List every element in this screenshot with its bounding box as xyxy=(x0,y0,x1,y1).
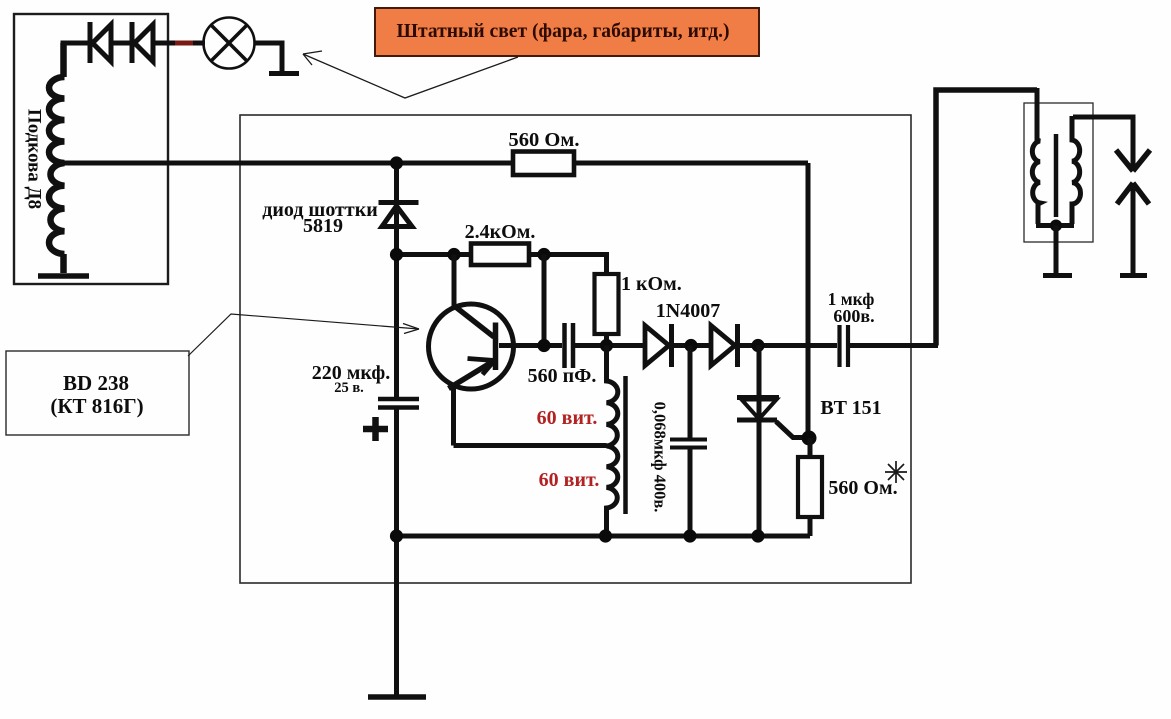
node dot rail left xyxy=(390,529,403,542)
diode D1 (left-pointing) xyxy=(90,22,111,63)
plus sign of C1 xyxy=(363,417,388,441)
ground main (bottom) xyxy=(368,694,426,700)
resistor R1 560 Ом xyxy=(513,152,574,176)
wire D1-D2 xyxy=(111,41,130,46)
node dot R2 right xyxy=(537,248,550,261)
wire output riser xyxy=(936,90,1037,346)
wire D2 to lamp xyxy=(153,41,175,46)
callout arrow to transistor xyxy=(188,314,419,356)
diode D4 1N4007 xyxy=(711,324,738,367)
ground of spark gap xyxy=(1120,273,1147,278)
node dot rail transformer xyxy=(599,529,612,542)
resistor R3 1 кОм xyxy=(595,274,619,334)
resistor R4 560 Ом xyxy=(808,438,813,457)
main circuit box xyxy=(240,115,911,583)
svg-text:Подкова Д8: Подкова Д8 xyxy=(24,109,45,209)
wire left vertical lower to ground xyxy=(394,410,399,696)
lamp (штатный свет) xyxy=(204,18,255,69)
wire right vertical x=808 xyxy=(806,163,811,438)
svg-text:560 Ом.: 560 Ом. xyxy=(828,477,897,499)
svg-text:2.4кОм.: 2.4кОм. xyxy=(465,221,536,243)
callout box Штатный свет xyxy=(375,8,759,56)
resistor R2 2.4кОм xyxy=(471,244,529,266)
transistor BD238 xyxy=(429,255,514,446)
node dot between diodes xyxy=(684,339,697,352)
ignition coil secondary winding xyxy=(1072,116,1080,224)
ground of lamp xyxy=(269,71,299,76)
wire D4 to C4 xyxy=(738,343,838,348)
svg-text:60 вит.: 60 вит. xyxy=(537,407,598,429)
node dot rail thyristor xyxy=(751,529,764,542)
ignition coil box xyxy=(1024,103,1093,242)
schottky diode 5819 xyxy=(379,203,419,227)
wire R3 bottom xyxy=(604,334,609,346)
ground of generator coil xyxy=(38,273,89,279)
svg-text:25 в.: 25 в. xyxy=(334,380,364,396)
wire base row left xyxy=(499,343,562,348)
node dot left xyxy=(390,248,403,261)
thyristor BT151 xyxy=(737,346,808,537)
transformer T1 primary winding lower 60 вит xyxy=(607,446,618,536)
wire D3-D4 xyxy=(672,343,713,348)
svg-text:560 Ом.: 560 Ом. xyxy=(509,129,580,151)
wire red to lamp xyxy=(193,41,205,46)
diode D2 (left-pointing) xyxy=(132,22,153,63)
capacitor C3 0,068мкф 400в xyxy=(670,346,707,537)
generator box (left enclosure) xyxy=(14,14,168,284)
capacitor C1 220мкф plates xyxy=(378,399,419,408)
svg-text:0,068мкф 400в.: 0,068мкф 400в. xyxy=(651,402,670,513)
node dot gate xyxy=(802,431,817,446)
asterisk footnote xyxy=(885,461,907,483)
svg-text:BT 151: BT 151 xyxy=(820,397,881,419)
ignition coil bottom wire xyxy=(1036,223,1074,228)
wire 2.4k row xyxy=(397,252,472,257)
wire emitter return xyxy=(454,443,607,448)
ground of ignition coil xyxy=(1043,273,1072,278)
svg-text:BD 238: BD 238 xyxy=(63,371,129,395)
wire base feedback vertical xyxy=(542,255,547,346)
spark gap upper arrow xyxy=(1116,150,1150,171)
spark gap lower arrow xyxy=(1117,183,1149,204)
svg-text:1N4007: 1N4007 xyxy=(656,300,720,322)
svg-text:(КТ 816Г): (КТ 816Г) xyxy=(50,394,143,418)
transformer T1 core xyxy=(623,376,628,514)
node dot coil common xyxy=(1050,220,1062,232)
wire bottom rail xyxy=(397,534,811,539)
svg-text:1 кОм.: 1 кОм. xyxy=(621,273,682,295)
wire left vertical upper xyxy=(394,163,399,397)
svg-text:5819: 5819 xyxy=(303,215,343,237)
svg-text:60 вит.: 60 вит. xyxy=(539,469,600,491)
node dot collector xyxy=(447,248,460,261)
transformer T1 primary winding upper 60 вит xyxy=(607,346,618,447)
wire coil to ground xyxy=(1054,226,1059,274)
node dot base xyxy=(537,339,550,352)
wire base row mid xyxy=(575,343,646,348)
node dot thyristor branch xyxy=(751,339,764,352)
svg-text:Штатный свет (фара, габариты,: Штатный свет (фара, габариты, итд.) xyxy=(396,21,729,42)
ignition coil core xyxy=(1054,134,1059,217)
svg-text:600в.: 600в. xyxy=(833,306,874,326)
generator coil Подкова Д8 xyxy=(49,43,65,273)
wire C4 to riser xyxy=(850,343,938,348)
ignition coil primary winding xyxy=(1032,88,1040,224)
emitter arrow of BD238 xyxy=(468,359,495,375)
callout box BD 238 xyxy=(6,351,189,435)
capacitor C2 560пФ xyxy=(565,323,574,368)
node dot rail C3 xyxy=(683,529,696,542)
wire R2 to corner xyxy=(529,255,607,275)
wire coil top to diodes xyxy=(61,41,89,46)
wire lamp to ground xyxy=(254,43,282,71)
node dot top rail xyxy=(390,156,403,169)
callout arrow to lamp xyxy=(303,51,518,98)
svg-text:560 пФ.: 560 пФ. xyxy=(528,365,597,387)
wire top rail xyxy=(64,161,808,166)
wire spark gap to ground xyxy=(1131,183,1136,273)
wire secondary to spark gap xyxy=(1073,117,1133,168)
dark red wire segment xyxy=(175,41,193,46)
capacitor C4 1мкф 600в xyxy=(840,325,849,367)
node dot R3/transformer xyxy=(600,339,613,352)
diode D3 1N4007 xyxy=(645,324,672,367)
